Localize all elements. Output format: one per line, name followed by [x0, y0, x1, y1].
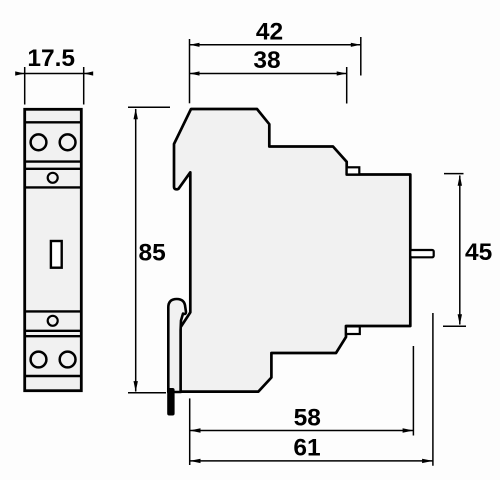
dim 61 right arrow	[422, 459, 433, 463]
dim 58/61 shared extension left	[189, 398, 191, 465]
front view lower band line 2	[25, 335, 82, 337]
dim 85 line	[135, 109, 137, 392]
front view upper section line	[25, 186, 82, 188]
svg-text:61: 61	[293, 434, 320, 461]
front view body outline	[25, 109, 82, 390]
dim 45 down arrow	[458, 314, 462, 325]
terminal screw top-left	[31, 134, 47, 150]
dim 58 extension right	[412, 346, 414, 436]
small screw lower	[48, 316, 58, 326]
small screw upper	[48, 173, 58, 183]
dim 45 top tick	[444, 173, 464, 175]
dim 61 line	[190, 460, 433, 462]
DIN clip lower tip	[167, 388, 174, 416]
dim 61 extension right	[432, 313, 434, 466]
dim 42 right arrow	[351, 43, 361, 47]
front view upper band line 2	[25, 168, 82, 170]
terminal screw bottom-left	[31, 352, 47, 368]
dim 45 line	[459, 176, 461, 325]
dim 85 bottom tick	[128, 392, 166, 394]
svg-text:38: 38	[253, 47, 280, 74]
front view lower band line 1	[25, 330, 82, 332]
front view lower section line	[25, 310, 82, 312]
dim 38 line	[190, 73, 347, 75]
terminal screw bottom-right	[60, 352, 76, 368]
dim 42 extension right	[360, 37, 362, 76]
dim 42 left arrow	[190, 43, 200, 47]
top latch tab	[347, 167, 360, 174]
dim 58 right arrow	[403, 428, 414, 432]
terminal screw top-right	[60, 134, 76, 150]
dim 38 extension right	[346, 67, 348, 104]
dim 42 extension left (shared with 38)	[189, 39, 191, 103]
dim 45 up arrow	[458, 175, 462, 186]
side profile body	[174, 109, 410, 392]
dim 17.5 extension right	[83, 67, 85, 105]
svg-text:85: 85	[139, 240, 166, 267]
dim 38 right arrow	[337, 71, 347, 75]
front view upper band line 1	[25, 160, 82, 162]
dim 85 top tick	[128, 106, 170, 108]
terminal pin	[410, 250, 433, 257]
dim 17.5 extension left	[24, 67, 26, 105]
front view top cap line	[25, 121, 82, 123]
dim 85 up arrow	[134, 109, 138, 120]
dim 85 down arrow	[134, 381, 138, 392]
dim 61 left arrow	[190, 459, 201, 463]
dim 17.5 line	[17, 73, 92, 75]
svg-text:17.5: 17.5	[27, 45, 75, 72]
front view bottom cap line	[25, 375, 82, 377]
dim 38 left arrow	[190, 71, 200, 75]
dim 45 bottom tick	[443, 325, 466, 327]
dim 58 left arrow	[190, 428, 201, 432]
bottom latch tab	[346, 326, 360, 334]
dim 17.5 right arrow	[84, 71, 94, 75]
svg-text:45: 45	[465, 239, 492, 266]
dim 58 line	[190, 430, 414, 432]
svg-text:42: 42	[256, 18, 283, 45]
dim 42 line	[190, 44, 361, 46]
toggle window	[51, 241, 62, 268]
dim 17.5 left arrow	[15, 71, 25, 75]
svg-text:58: 58	[294, 405, 321, 432]
DIN rail clip tab	[168, 299, 186, 392]
